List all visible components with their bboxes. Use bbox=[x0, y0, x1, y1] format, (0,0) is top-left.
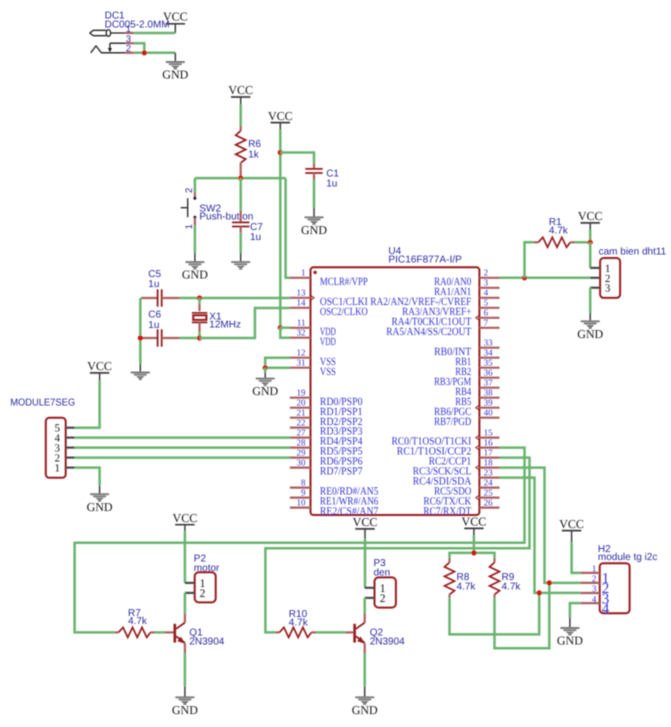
svg-text:MCLR#/VPP: MCLR#/VPP bbox=[320, 276, 368, 288]
U4 pin 11 VDD bbox=[290, 318, 336, 338]
U4 pin 33 RB0/INT bbox=[434, 338, 499, 358]
svg-text:VSS: VSS bbox=[320, 366, 336, 378]
junction sensor VCC bbox=[588, 240, 593, 245]
svg-text:1k: 1k bbox=[248, 149, 260, 160]
junction reset node bbox=[238, 176, 243, 181]
wire VCC to P3 pin1 bbox=[364, 539, 367, 588]
svg-text:12MHz: 12MHz bbox=[209, 320, 241, 331]
wire C5 C6 left rail bbox=[139, 298, 142, 364]
U4 pin 28 RD5/PSP5 bbox=[290, 437, 363, 457]
U4 pin 40 RB7/PGD bbox=[434, 408, 499, 428]
wire OSC2 node to pin 14 bbox=[200, 308, 291, 338]
svg-text:37: 37 bbox=[484, 378, 494, 388]
resistor R7 4.7k bbox=[115, 608, 155, 638]
svg-text:32: 32 bbox=[297, 328, 306, 338]
VCC symbol above R6 bbox=[228, 83, 253, 104]
svg-text:5: 5 bbox=[484, 298, 489, 308]
wire VDD to pin 32 bbox=[280, 328, 290, 338]
U4 pin 37 RB4 bbox=[455, 378, 499, 398]
U4 pin 15 RC0/T1OSO/T1CKI bbox=[392, 427, 500, 447]
svg-text:3: 3 bbox=[484, 278, 489, 288]
svg-text:25: 25 bbox=[484, 487, 494, 497]
wire DC1 pin3 down bbox=[134, 43, 144, 53]
svg-text:22: 22 bbox=[297, 417, 306, 427]
U4 pin 8 RE0/RD#/AN5 bbox=[290, 477, 379, 497]
wire R1 to VCC bbox=[575, 241, 590, 244]
svg-text:MODULE7SEG: MODULE7SEG bbox=[10, 398, 75, 409]
wire RC2 to R10 bbox=[265, 458, 529, 633]
wire R8 bottom loop to SDA node bbox=[450, 593, 540, 635]
junction SDA R8 bbox=[537, 590, 542, 595]
wire R8 R9 top rail bbox=[450, 553, 495, 559]
svg-text:3: 3 bbox=[592, 584, 597, 594]
wire reset node rail bbox=[195, 177, 286, 180]
VCC symbol above C1 bbox=[268, 109, 293, 130]
wire Q1 emitter to ground bbox=[184, 653, 187, 686]
transistor Q1 2N3904 bbox=[165, 614, 225, 654]
svg-text:Push-button: Push-button bbox=[199, 212, 253, 223]
ground symbol at MODULE7SEG bbox=[87, 486, 113, 514]
wire SW2 to ground bbox=[194, 226, 197, 253]
wire R6 to reset node bbox=[239, 176, 242, 178]
wire R1 branch up bbox=[525, 242, 534, 277]
svg-text:1: 1 bbox=[301, 268, 306, 278]
junction C6 left bbox=[138, 335, 143, 340]
capacitor C6 1u bbox=[141, 310, 180, 347]
wire DC1 pin1 to VCC bbox=[134, 32, 175, 35]
junction DC1 ground net bbox=[142, 50, 147, 55]
svg-text:4.7k: 4.7k bbox=[549, 225, 569, 236]
svg-text:23: 23 bbox=[484, 467, 494, 477]
svg-text:12: 12 bbox=[297, 348, 306, 358]
op-amp U4 PIC16F877A-I/P microcontroller box bbox=[311, 246, 480, 515]
wire C7 to ground bbox=[239, 233, 242, 253]
svg-text:1u: 1u bbox=[148, 279, 159, 290]
svg-text:RD7/PSP7: RD7/PSP7 bbox=[320, 466, 363, 478]
U4 pin 6 RA4/T0CKI/C1OUT bbox=[392, 308, 500, 328]
ground symbol at Q1 bbox=[172, 686, 198, 717]
svg-text:20: 20 bbox=[297, 398, 307, 408]
svg-text:1: 1 bbox=[184, 224, 195, 229]
svg-text:7: 7 bbox=[484, 318, 489, 328]
ground symbol at Q2 bbox=[352, 686, 378, 717]
connector P3 den bbox=[365, 558, 396, 607]
capacitor C1 1u bbox=[305, 163, 339, 189]
svg-text:2: 2 bbox=[592, 574, 597, 584]
svg-text:4.7k: 4.7k bbox=[128, 616, 148, 627]
svg-text:1: 1 bbox=[592, 564, 597, 574]
svg-text:14: 14 bbox=[297, 298, 307, 308]
VCC symbol at MODULE7SEG bbox=[87, 359, 112, 380]
svg-text:VDD: VDD bbox=[320, 336, 336, 348]
svg-text:2: 2 bbox=[380, 593, 386, 605]
capacitor C5 1u bbox=[141, 269, 180, 307]
svg-text:GND: GND bbox=[301, 223, 327, 237]
svg-text:RA5/AN4/SS/C2OUT: RA5/AN4/SS/C2OUT bbox=[386, 326, 471, 338]
wire OSC1 node to pin 13 bbox=[200, 297, 291, 300]
svg-text:4.7k: 4.7k bbox=[502, 582, 522, 593]
ground symbol at C1 bbox=[301, 208, 327, 237]
VCC symbol at sensor bbox=[578, 209, 603, 229]
ground symbol at SW2 bbox=[182, 253, 208, 282]
ground symbol at C5 C6 bbox=[131, 364, 150, 379]
wire VCC to P2 pin1 bbox=[184, 531, 187, 583]
U4 pin 4 RA2/AN2/VREF-/CVREF bbox=[370, 288, 499, 308]
VCC symbol at H2 bbox=[559, 517, 584, 543]
svg-text:19: 19 bbox=[297, 388, 307, 398]
svg-text:30: 30 bbox=[297, 457, 307, 467]
U4 pin 38 RB5 bbox=[455, 388, 499, 408]
wire module pin2 to RD6 bbox=[75, 456, 290, 459]
svg-text:35: 35 bbox=[484, 358, 494, 368]
svg-text:10: 10 bbox=[297, 497, 307, 507]
U4 pin 17 RC2/CCP1 bbox=[429, 447, 500, 467]
svg-text:39: 39 bbox=[484, 398, 494, 408]
svg-text:module tg i2c: module tg i2c bbox=[598, 552, 657, 563]
U4 pin 1 MCLR#/VPP bbox=[290, 268, 368, 288]
U4 pin 22 RD3/PSP3 bbox=[290, 417, 363, 437]
junction VSS bbox=[263, 365, 268, 370]
U4 pin 13 OSC1/CLKI bbox=[290, 288, 368, 308]
svg-text:26: 26 bbox=[484, 497, 494, 507]
svg-text:8: 8 bbox=[301, 477, 306, 487]
wire VSS pin 31 bbox=[265, 367, 290, 370]
U4 pin 31 VSS bbox=[290, 358, 336, 378]
ground symbol at C7 bbox=[231, 253, 250, 269]
svg-text:2: 2 bbox=[484, 268, 489, 278]
resistor R6 1k bbox=[236, 126, 262, 176]
U4 pin 10 RE2/CS#/AN7 bbox=[290, 497, 379, 517]
VCC symbol at DC1 bbox=[163, 10, 188, 34]
svg-text:18: 18 bbox=[484, 457, 494, 467]
U4 pin 16 RC1/T1OSI/CCP2 bbox=[397, 437, 500, 457]
svg-text:VCC: VCC bbox=[228, 83, 253, 97]
svg-text:VCC: VCC bbox=[353, 515, 378, 529]
crystal X1 12MHz bbox=[192, 298, 241, 338]
wire module pin1 to ground bbox=[75, 468, 100, 486]
U4 pin 9 RE1/WR#/AN6 bbox=[290, 487, 379, 507]
U4 pin 7 RA5/AN4/SS/C2OUT bbox=[386, 318, 499, 338]
svg-text:GND: GND bbox=[252, 384, 278, 398]
wire VSS to ground bbox=[264, 368, 267, 373]
svg-text:28: 28 bbox=[297, 437, 307, 447]
svg-text:24: 24 bbox=[484, 477, 494, 487]
wire module pin5 to VCC bbox=[75, 381, 100, 428]
wire R10 to Q2 base bbox=[316, 631, 345, 634]
junction VDD pin11 bbox=[278, 325, 283, 330]
svg-text:cam bien dht11: cam bien dht11 bbox=[599, 247, 667, 258]
svg-text:31: 31 bbox=[297, 358, 306, 368]
U4 pin 14 OSC2/CLKO bbox=[290, 298, 368, 318]
svg-text:4: 4 bbox=[592, 594, 597, 604]
wire P2 pin2 to Q1 collector bbox=[184, 593, 187, 614]
svg-text:2: 2 bbox=[200, 588, 206, 600]
wire C6 to OSC2 node bbox=[180, 337, 200, 340]
wire sensor pin3 to ground bbox=[589, 288, 592, 313]
resistor R10 4.7k bbox=[275, 609, 316, 637]
connector P2 motor bbox=[185, 553, 220, 602]
svg-text:6: 6 bbox=[484, 308, 489, 318]
U4 pin 3 RA1/AN1 bbox=[434, 278, 499, 298]
wire RC4 to H2 pin3 bbox=[500, 478, 581, 593]
wire VDD to pin 11 bbox=[280, 326, 290, 329]
svg-text:GND: GND bbox=[182, 268, 208, 282]
wire P3 pin2 to Q2 collector bbox=[363, 598, 366, 614]
wire RC1 to R7 bbox=[75, 448, 525, 633]
wire VCC to R6 bbox=[239, 105, 242, 127]
VCC symbol at P2 bbox=[173, 511, 198, 531]
svg-text:11: 11 bbox=[297, 318, 306, 328]
U4 pin 18 RC3/SCK/SCL bbox=[413, 457, 500, 477]
svg-text:17: 17 bbox=[484, 447, 494, 457]
U4 pin 30 RD7/PSP7 bbox=[290, 457, 363, 477]
switch SW2 Push-button bbox=[181, 188, 254, 230]
wire RA0 to sensor bbox=[500, 277, 591, 280]
U4 pin 39 RB6/PGC bbox=[434, 398, 499, 418]
svg-text:4: 4 bbox=[484, 288, 489, 298]
U4 pin 35 RB2 bbox=[455, 358, 499, 378]
svg-text:16: 16 bbox=[484, 437, 494, 447]
junction OSC2 node bbox=[197, 335, 202, 340]
ground symbol at sensor bbox=[577, 313, 603, 341]
svg-text:DC005-2.0MM: DC005-2.0MM bbox=[105, 19, 170, 30]
svg-text:GND: GND bbox=[577, 327, 603, 341]
svg-text:GND: GND bbox=[557, 634, 583, 648]
U4 pin 19 RD0/PSP0 bbox=[290, 388, 363, 408]
svg-text:VCC: VCC bbox=[559, 517, 584, 531]
U4 pin 24 RC5/SDO bbox=[434, 477, 499, 497]
U4 pin 36 RB3/PGM bbox=[434, 368, 499, 388]
svg-text:4: 4 bbox=[602, 601, 610, 617]
U4 pin 26 RC7/RX/DT bbox=[423, 497, 499, 517]
U4 pin 27 RD4/PSP4 bbox=[290, 427, 363, 447]
svg-text:9: 9 bbox=[301, 487, 306, 497]
wire module pin3 to RD5 bbox=[75, 446, 290, 449]
wire reset node to MCLR pin bbox=[286, 178, 290, 278]
resistor R8 4.7k bbox=[445, 558, 477, 597]
svg-text:OSC2/CLKO: OSC2/CLKO bbox=[320, 306, 368, 318]
wire C5 to OSC1 node bbox=[180, 297, 200, 300]
wire H2 pin4 to ground bbox=[570, 603, 580, 618]
wire RC3 to H2 pin2 bbox=[500, 468, 581, 583]
VCC symbol at P3 bbox=[353, 515, 378, 539]
svg-text:4.7k: 4.7k bbox=[289, 617, 309, 628]
wire reset node to SW2 bbox=[194, 178, 197, 192]
svg-text:GND: GND bbox=[172, 703, 198, 717]
connector MODULE7SEG bbox=[10, 398, 75, 478]
svg-text:GND: GND bbox=[162, 68, 188, 82]
U4 pin 34 RB1 bbox=[455, 348, 499, 368]
junction OSC1 node bbox=[197, 295, 202, 300]
svg-text:motor: motor bbox=[194, 563, 220, 574]
transistor Q2 2N3904 bbox=[345, 614, 405, 654]
power jack DC1 DC005-2.0MM bbox=[90, 11, 170, 53]
svg-text:VCC: VCC bbox=[163, 10, 188, 24]
svg-text:1u: 1u bbox=[148, 320, 159, 331]
ground symbol at VSS bbox=[252, 373, 278, 398]
U4 pin 25 RC6/TX/CK bbox=[423, 487, 499, 507]
wire VSS pin 12 bbox=[265, 358, 290, 368]
junction SCL R9 bbox=[547, 580, 552, 585]
svg-text:GND: GND bbox=[352, 703, 378, 717]
ground symbol at DC1 bbox=[162, 53, 188, 82]
wire DC1 pin2 to GND bbox=[134, 52, 175, 55]
svg-text:13: 13 bbox=[297, 288, 307, 298]
svg-text:VCC: VCC bbox=[87, 359, 112, 373]
svg-text:PIC16F877A-I/P: PIC16F877A-I/P bbox=[388, 254, 462, 265]
connector cam bien dht11 bbox=[590, 247, 666, 298]
wire branch to C1 bbox=[280, 153, 314, 164]
svg-text:2: 2 bbox=[126, 44, 131, 55]
svg-text:40: 40 bbox=[484, 408, 494, 418]
svg-text:RB7/PGD: RB7/PGD bbox=[434, 416, 471, 428]
DC1 pin 3 bbox=[126, 34, 135, 45]
svg-text:VCC: VCC bbox=[173, 511, 198, 525]
wire VCC down to VDD pins bbox=[279, 130, 282, 328]
wire R9 bottom loop to SCL node bbox=[495, 583, 550, 648]
svg-text:2N3904: 2N3904 bbox=[370, 637, 405, 648]
U4 pin 2 RA0/AN0 bbox=[434, 268, 499, 288]
connector H2 module tg i2c bbox=[580, 544, 657, 618]
svg-text:1u: 1u bbox=[326, 179, 337, 190]
U4 pin 12 VSS bbox=[290, 348, 336, 368]
U4 pin 20 RD1/PSP1 bbox=[290, 398, 363, 418]
svg-text:21: 21 bbox=[297, 408, 306, 418]
svg-text:1: 1 bbox=[54, 463, 60, 475]
svg-text:VCC: VCC bbox=[268, 109, 293, 123]
resistor R1 4.7k bbox=[534, 217, 575, 247]
svg-text:GND: GND bbox=[87, 500, 113, 514]
junction RA0 R1 branch bbox=[522, 275, 527, 280]
wire VCC to sensor pin1 bbox=[589, 230, 592, 243]
svg-text:27: 27 bbox=[297, 427, 307, 437]
junction VCC C1 branch bbox=[278, 150, 283, 155]
svg-text:4.7k: 4.7k bbox=[457, 582, 477, 593]
U4 pin 29 RD6/PSP6 bbox=[290, 447, 363, 467]
U4 pin 32 VDD bbox=[290, 328, 336, 348]
DC1 pin 2 bbox=[126, 44, 135, 55]
ground symbol at H2 bbox=[557, 618, 583, 648]
resistor R9 4.7k bbox=[490, 558, 522, 597]
svg-text:15: 15 bbox=[484, 427, 494, 437]
U4 pin 5 RA3/AN3/VREF+ bbox=[402, 298, 499, 318]
DC1 pin 1 bbox=[126, 24, 135, 35]
wire reset node to C7 bbox=[239, 178, 242, 210]
svg-text:3: 3 bbox=[605, 283, 611, 295]
wire R7 to Q1 base bbox=[155, 631, 165, 634]
wire sensor pin1 down bbox=[589, 242, 592, 268]
svg-text:VCC: VCC bbox=[462, 515, 487, 529]
junction R8 R9 VCC bbox=[471, 550, 476, 555]
U4 pin 23 RC4/SDI/SDA bbox=[413, 467, 500, 487]
U4 pin 21 RD2/PSP2 bbox=[290, 408, 363, 428]
svg-text:2N3904: 2N3904 bbox=[189, 637, 224, 648]
wire C1 to ground bbox=[313, 180, 316, 208]
wire Q2 emitter to ground bbox=[363, 653, 366, 686]
wire VCC stem to rail bbox=[473, 536, 476, 553]
svg-text:den: den bbox=[374, 568, 391, 579]
svg-text:2: 2 bbox=[184, 188, 195, 193]
svg-text:29: 29 bbox=[297, 447, 307, 457]
svg-text:36: 36 bbox=[484, 368, 494, 378]
VCC symbol at R8 R9 bbox=[462, 515, 487, 536]
svg-text:38: 38 bbox=[484, 388, 494, 398]
svg-text:33: 33 bbox=[484, 338, 494, 348]
wire module pin4 to RD4 bbox=[75, 436, 290, 439]
svg-text:VCC: VCC bbox=[578, 209, 603, 223]
svg-text:34: 34 bbox=[484, 348, 494, 358]
wire VCC to H2 pin1 bbox=[572, 543, 581, 573]
svg-text:1u: 1u bbox=[250, 232, 261, 243]
capacitor C7 1u bbox=[232, 211, 263, 244]
